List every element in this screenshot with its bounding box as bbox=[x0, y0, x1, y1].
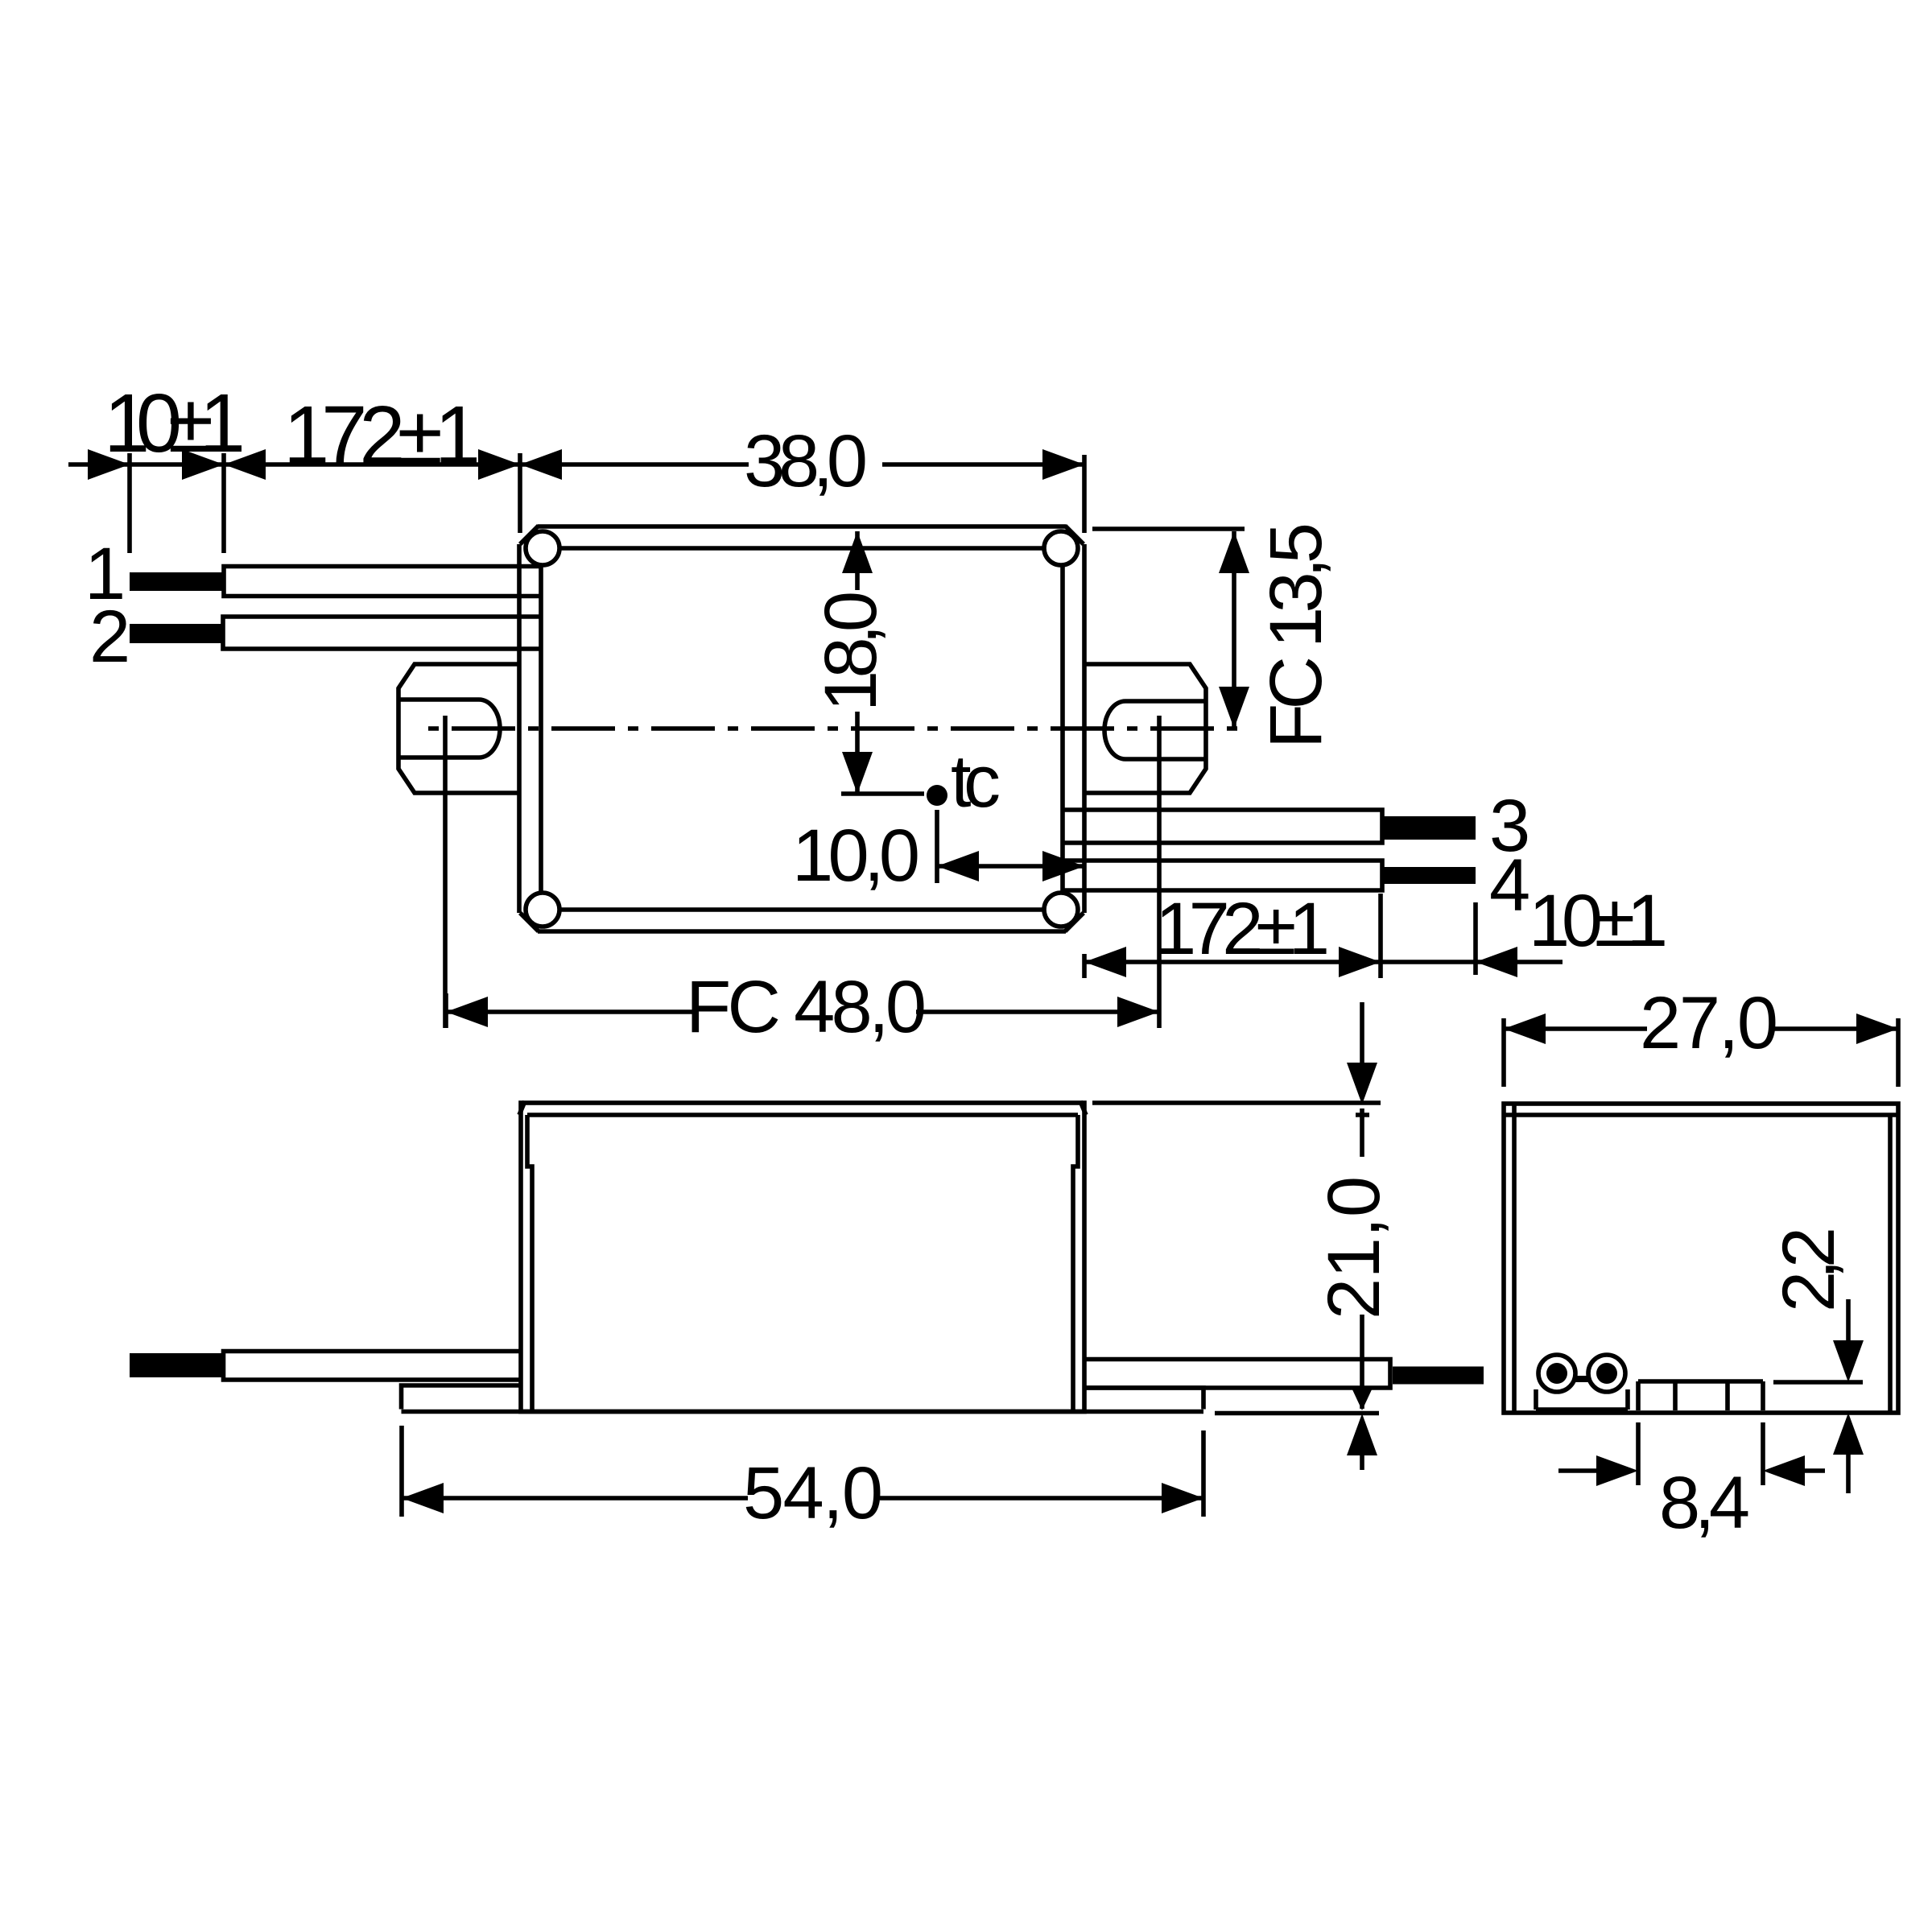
extension tick at body right edge (172±1 lower) bbox=[1082, 954, 1087, 978]
terminal block dividers bbox=[1638, 1381, 1763, 1410]
end view inner wall left bbox=[1512, 1104, 1517, 1413]
wire hole grommet right: wire core bbox=[1596, 1363, 1617, 1384]
wire 1 stripped tip bbox=[130, 572, 224, 591]
corner boss circle top-right bbox=[1044, 531, 1078, 565]
right mounting tab bbox=[1084, 664, 1206, 793]
end view inner wall top bbox=[1504, 1113, 1898, 1117]
FC 48,0 arrow left bbox=[446, 997, 488, 1027]
FC48 left extension line through slot center bbox=[443, 716, 448, 1028]
extension line at wire3/4 tip end bbox=[1473, 902, 1478, 975]
wire 4 stripped tip bbox=[1382, 867, 1476, 884]
svg-text:tc: tc bbox=[951, 741, 1001, 823]
8,4 right extension line bbox=[1761, 1422, 1765, 1485]
svg-text:2,2: 2,2 bbox=[1768, 1227, 1850, 1312]
dimension 27,0: dimension line bbox=[1504, 1026, 1898, 1031]
arrow right at x161 bbox=[88, 449, 130, 480]
dimension 10,0: extension line below tc bbox=[935, 810, 939, 883]
arrow right at x278 bbox=[182, 449, 224, 480]
54,0 arrow left bbox=[402, 1483, 444, 1513]
svg-text:38,0: 38,0 bbox=[744, 420, 868, 502]
FC48 right extension line through slot center bbox=[1157, 716, 1162, 1028]
21,0 arrow up at bottom (outside) bbox=[1347, 1414, 1377, 1455]
extension line at wire tip right end bbox=[221, 453, 226, 553]
svg-text:18,0: 18,0 bbox=[810, 591, 892, 712]
center line (dash-dot) bbox=[428, 726, 1240, 731]
21,0 arrow down at top (outside) bbox=[1347, 1063, 1377, 1104]
54,0 right extension line bbox=[1201, 1430, 1206, 1517]
dimension 10±1 / 172±1 / 38,0 top: dimension line bbox=[68, 462, 1084, 467]
arrow left at x278 bbox=[224, 449, 266, 480]
corner boss circle bottom-left bbox=[526, 893, 559, 927]
side view lid seam left with jog bbox=[527, 1115, 532, 1412]
enclosure body inner wall (top view) bbox=[541, 548, 1063, 910]
svg-text:4: 4 bbox=[1489, 844, 1530, 927]
27,0 arrow right bbox=[1856, 1013, 1898, 1044]
dimension 172±1 / 10±1 bottom-right: dimension line bbox=[1084, 960, 1563, 964]
arrow right at x646 bbox=[478, 449, 520, 480]
dimension 21,0: top extension line bbox=[1092, 1100, 1381, 1105]
dimension 18,0: dimension line bbox=[855, 531, 860, 794]
svg-text:172±1: 172±1 bbox=[283, 389, 481, 481]
2,2 arrow down (tip at top ref) bbox=[1833, 1340, 1864, 1382]
svg-text:27,0: 27,0 bbox=[1640, 982, 1778, 1064]
extension line at wire3/4 insulation end bbox=[1378, 894, 1383, 978]
FC 13,5 arrow down bbox=[1219, 687, 1249, 729]
arrow left at x1347 (172±1) bbox=[1084, 947, 1126, 977]
arrow left at x1833 (10±1) bbox=[1476, 947, 1517, 977]
svg-text:10±1: 10±1 bbox=[1529, 880, 1668, 962]
21,0 small arrow down at bottom (inside) bbox=[1351, 1386, 1373, 1410]
side view corner bevel top-left bbox=[519, 1101, 525, 1115]
21,0 bottom extension line bbox=[1215, 1411, 1379, 1416]
dimension 54,0: dimension line bbox=[402, 1496, 1203, 1501]
2,2 dimension line above bbox=[1846, 1299, 1851, 1340]
svg-text:21,0: 21,0 bbox=[1313, 1176, 1395, 1319]
svg-text:8,4: 8,4 bbox=[1659, 1462, 1750, 1544]
end view body outline bbox=[1504, 1104, 1898, 1413]
FC 13,5 arrow up bbox=[1219, 531, 1249, 573]
wire 2 outline bbox=[223, 617, 539, 649]
54,0 left extension line bbox=[399, 1426, 404, 1517]
side view right flange bbox=[1084, 1388, 1203, 1410]
wire hole grommet left: outer ring bbox=[1538, 1355, 1575, 1392]
wire hole grommet left: wire core bbox=[1546, 1363, 1567, 1384]
svg-text:172±1: 172±1 bbox=[1155, 888, 1330, 970]
side view body outline bbox=[521, 1103, 1084, 1412]
FC 48,0 left extension line bbox=[444, 993, 448, 1028]
side view corner bevel top-right bbox=[1080, 1101, 1086, 1115]
enclosure body outer outline (top view) bbox=[519, 526, 1084, 931]
side view bottom edge bbox=[402, 1410, 1204, 1414]
21,0 dimension line upper tail bbox=[1360, 1002, 1364, 1063]
left mounting tab bbox=[398, 664, 520, 793]
svg-text:FC 13,5: FC 13,5 bbox=[1255, 522, 1337, 749]
side view right wire outline bbox=[1084, 1360, 1390, 1389]
extension line at body left edge (top) bbox=[518, 453, 522, 533]
left tab slot bbox=[399, 700, 500, 758]
10,0 arrow right bbox=[1042, 851, 1084, 881]
corner boss circle top-left bbox=[526, 531, 559, 565]
side view lid seam top bbox=[527, 1113, 1078, 1117]
extension line at wire tip left end bbox=[127, 453, 132, 553]
21,0 inner top extension stub bbox=[1356, 1113, 1369, 1117]
54,0 arrow right bbox=[1162, 1483, 1203, 1513]
8,4 left tail and arrow bbox=[1558, 1468, 1602, 1473]
wire 1 outline bbox=[224, 567, 539, 597]
svg-text:54,0: 54,0 bbox=[743, 1452, 883, 1534]
FC 48,0 arrow right bbox=[1117, 997, 1159, 1027]
terminal block top bbox=[1638, 1379, 1763, 1384]
corner boss circle bottom-right bbox=[1044, 893, 1078, 927]
dimension 8,4: left extension line bbox=[1636, 1422, 1641, 1485]
side view right wire stripped tip bbox=[1393, 1367, 1484, 1385]
10,0 arrow left bbox=[937, 851, 979, 881]
27,0 left extension line bbox=[1501, 1018, 1506, 1087]
arrow right at x1715 (172±1) bbox=[1339, 947, 1381, 977]
arrow right at x1347 bbox=[1042, 449, 1084, 480]
27,0 right extension line bbox=[1896, 1018, 1901, 1087]
grommet bridge bar bbox=[1574, 1376, 1590, 1382]
extension line at body right edge (top) bbox=[1082, 455, 1087, 533]
dimension 10,0: dimension line bbox=[937, 864, 1084, 869]
wire 2 stripped tip bbox=[130, 624, 223, 643]
side view left wire outline bbox=[224, 1352, 522, 1381]
grommet holder outline bbox=[1536, 1389, 1628, 1410]
dimension FC 48,0: dimension line bbox=[446, 1009, 1159, 1014]
svg-text:10±1: 10±1 bbox=[104, 377, 246, 469]
27,0 arrow left bbox=[1504, 1013, 1546, 1044]
svg-text:FC 48,0: FC 48,0 bbox=[686, 966, 927, 1048]
21,0 dimension line middle segments bbox=[1360, 1108, 1364, 1409]
21,0 dimension line lower tail bbox=[1360, 1449, 1364, 1470]
end view inner wall right bbox=[1888, 1115, 1893, 1413]
wire 3 outline bbox=[1064, 810, 1382, 843]
right tab slot bbox=[1104, 701, 1205, 759]
2,2 dimension line below bbox=[1846, 1449, 1851, 1493]
svg-text:10,0: 10,0 bbox=[792, 815, 920, 897]
18,0 arrow up bbox=[842, 531, 873, 573]
side view left flange bbox=[402, 1385, 522, 1410]
wire hole grommet right: outer ring bbox=[1588, 1355, 1625, 1392]
tc point dot bbox=[927, 785, 947, 806]
side view left wire stripped tip bbox=[130, 1353, 223, 1377]
svg-text:2: 2 bbox=[89, 596, 130, 678]
dimension FC 13,5: dimension line bbox=[1232, 531, 1236, 729]
side view lid seam right with jog bbox=[1073, 1115, 1078, 1412]
dimension 2,2: top reference line bbox=[1773, 1380, 1863, 1385]
dimension FC 13,5: top extension line bbox=[1092, 526, 1245, 531]
tc reference line bbox=[841, 791, 924, 796]
18,0 arrow down bbox=[842, 752, 873, 794]
wire 3 stripped tip bbox=[1382, 816, 1476, 840]
2,2 arrow up (tip at bottom edge) bbox=[1833, 1413, 1864, 1455]
arrow left at x646 bbox=[520, 449, 562, 480]
8,4 right tail and arrow bbox=[1803, 1468, 1825, 1473]
wire 4 outline bbox=[1064, 861, 1382, 890]
